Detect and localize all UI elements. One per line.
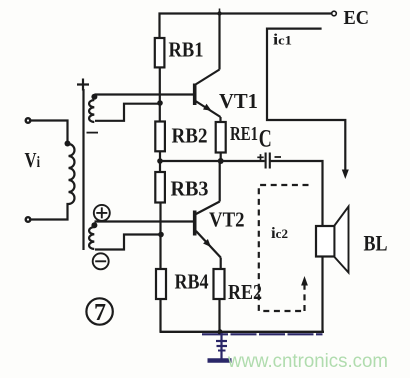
transistor VT1 <box>195 70 221 118</box>
wire: VT2 emitter to RE2 <box>220 258 222 270</box>
resistor RB3 <box>155 172 165 203</box>
resistor RB2 <box>155 122 165 152</box>
svg-text:7: 7 <box>94 300 106 326</box>
svg-text:www.cntronics.com: www.cntronics.com <box>227 350 388 372</box>
resistor RB4 <box>156 269 166 299</box>
node: secondary 2 dot <box>91 222 97 228</box>
terminal EC <box>332 11 337 16</box>
svg-text:RB3: RB3 <box>171 177 209 201</box>
wire: blue rail overlay <box>202 333 323 335</box>
svg-text:VT2: VT2 <box>209 208 245 232</box>
wire: RB4 to bottom rail <box>159 299 161 332</box>
node: rail-ground junction <box>218 329 223 334</box>
resistor RE1 <box>216 122 226 153</box>
wire: bottom ground rail <box>160 331 325 333</box>
wire: RB3 to RB4 <box>159 203 161 270</box>
resistor RB1 <box>155 38 165 67</box>
transformer primary winding <box>69 144 75 204</box>
capacitor plus mark <box>257 154 263 160</box>
svg-text:RE1: RE1 <box>230 123 258 145</box>
input terminal top <box>26 118 31 123</box>
transformer core <box>82 89 84 250</box>
svg-text:Vi: Vi <box>25 148 41 172</box>
node: bias junction 1 <box>157 100 163 106</box>
transistor VT2 <box>195 202 221 258</box>
svg-text:RE2: RE2 <box>228 280 262 304</box>
wire: VT1 emitter to RE1 <box>219 117 221 122</box>
ground <box>208 333 232 361</box>
wire: speaker to bottom rail <box>321 257 323 333</box>
node: primary top dot <box>65 141 71 147</box>
node: top rail junction <box>217 9 221 16</box>
svg-text:EC: EC <box>344 7 370 29</box>
transformer secondary 2 winding <box>89 227 94 249</box>
input terminal bottom <box>26 217 31 222</box>
node A (divider mid node) <box>157 158 163 164</box>
svg-text:RB4: RB4 <box>175 270 209 294</box>
transformer secondary 1 winding <box>89 100 94 122</box>
svg-text:VT1: VT1 <box>219 89 258 113</box>
svg-text:ic2: ic2 <box>271 225 288 242</box>
arrowhead ic2 <box>301 276 308 286</box>
wire: secondary 1 top to VT1 base <box>95 93 194 95</box>
wire: secondary 2 top to VT2 base <box>95 220 194 222</box>
wire: node to capacitor <box>160 160 265 162</box>
wire: input bottom <box>30 204 69 220</box>
wire: RB2 to RB3 <box>159 151 161 172</box>
wire: RE2 to bottom rail <box>218 299 220 332</box>
capacitor minus mark <box>275 156 282 158</box>
polarity plus (secondary 1) <box>77 79 89 91</box>
arrowhead ic1 <box>342 170 349 180</box>
node C (output node) <box>218 158 224 164</box>
polarity circled minus (secondary 2) <box>93 253 109 269</box>
svg-text:BL: BL <box>364 231 388 256</box>
wire: top supply rail <box>160 14 332 39</box>
speaker BL horn <box>335 207 349 273</box>
polarity circled plus (secondary 2) <box>94 205 110 221</box>
capacitor C plates <box>266 153 270 169</box>
speaker BL box <box>316 226 335 257</box>
wire: VT1 collector up <box>218 14 220 70</box>
node: secondary 1 dot <box>91 94 97 100</box>
wire: VT2 collector up to node <box>219 161 221 202</box>
current loop ic2 (dashed) <box>259 185 309 311</box>
figure number 7 (circled) <box>86 298 112 326</box>
wire: capacitor to speaker <box>271 161 323 226</box>
wire: RE1 to node C <box>220 153 222 162</box>
svg-text:RB1: RB1 <box>169 38 204 62</box>
current loop ic1 <box>267 29 345 171</box>
resistor RE2 <box>214 269 225 299</box>
wire: secondary 1 bottom to node <box>95 104 160 121</box>
wire: RB1 to RB2 <box>159 67 161 121</box>
svg-text:ic1: ic1 <box>273 32 292 49</box>
wire: secondary 2 bottom to node <box>95 235 161 250</box>
svg-text:RB2: RB2 <box>172 124 208 148</box>
svg-text:C: C <box>259 126 272 153</box>
wire: input top <box>30 121 68 143</box>
node B (lower divider node) <box>158 232 164 238</box>
polarity minus (secondary 1) <box>87 132 99 134</box>
